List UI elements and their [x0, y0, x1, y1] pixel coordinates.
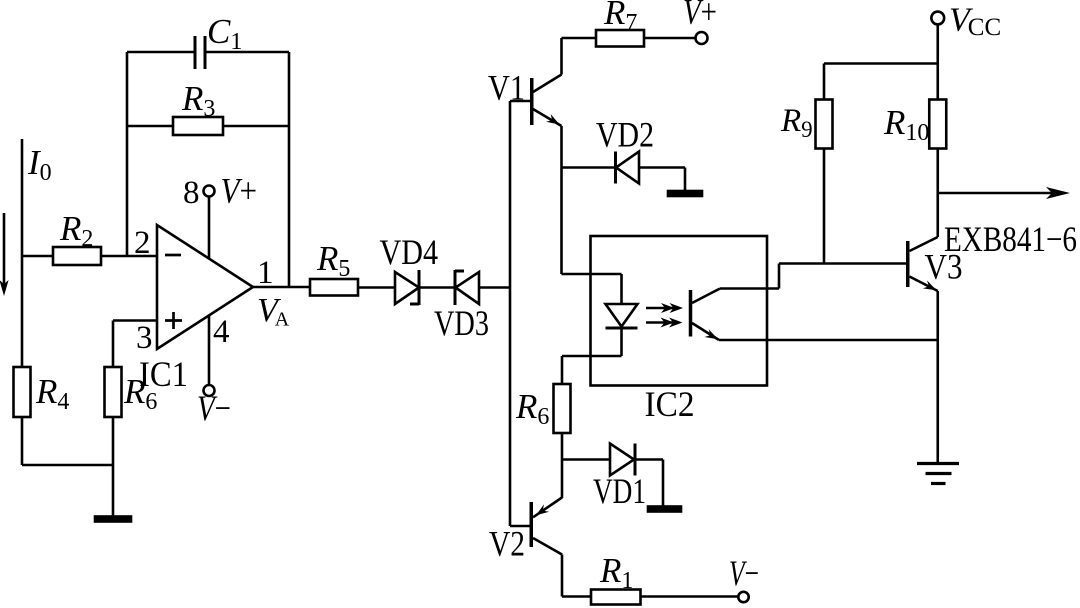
svg-text:V−: V−	[729, 553, 759, 593]
wire R2 to op-amp pin 2	[101, 255, 157, 258]
pin 8 wire	[208, 197, 211, 260]
wire VCC branch to R9	[824, 64, 938, 100]
svg-text:R7: R7	[603, 0, 637, 36]
wire op-amp output	[253, 286, 310, 289]
svg-text:VCC: VCC	[949, 2, 1001, 42]
resistor R9	[816, 100, 833, 149]
wire VD2 to ground	[639, 168, 685, 192]
pin 4 wire	[208, 316, 211, 386]
op-amp minus sign	[165, 254, 181, 257]
wire C1 top right	[206, 51, 289, 54]
wire main vertical node line	[509, 101, 512, 526]
diode VD2	[616, 152, 640, 184]
svg-text:VA: VA	[257, 292, 290, 331]
wire V1 emitter to LED anode	[562, 274, 622, 304]
resistor R6a	[105, 367, 122, 417]
wire C1 top left	[127, 51, 194, 54]
svg-text:R6: R6	[515, 387, 549, 430]
svg-text:V+: V+	[221, 171, 258, 211]
wire R10 bottom	[936, 149, 939, 238]
capacitor C1	[195, 36, 205, 69]
wire R6b bottom	[561, 433, 564, 498]
wire bottom horizontal	[22, 464, 113, 467]
svg-text:C1: C1	[207, 12, 242, 55]
svg-text:V1: V1	[488, 68, 525, 108]
light arrow 2	[646, 318, 683, 328]
terminal VCC	[931, 12, 944, 25]
svg-text:8: 8	[183, 175, 200, 211]
ground VD1	[648, 507, 681, 512]
svg-text:R3: R3	[181, 79, 215, 122]
wire to ground	[112, 465, 115, 518]
wire R4 bottom	[21, 417, 24, 465]
zener diode VD3	[455, 270, 479, 305]
svg-text:R4: R4	[35, 372, 69, 415]
wire op-amp pin 3	[113, 321, 157, 368]
svg-text:IC2: IC2	[645, 384, 695, 424]
terminal V+	[696, 32, 708, 44]
wire to VD2	[562, 166, 616, 169]
wire R5 to VD4	[358, 286, 395, 289]
resistor R4	[14, 367, 31, 417]
resistor R5	[310, 279, 358, 296]
wire input line	[21, 139, 24, 367]
wire VD3 to node	[479, 286, 510, 289]
svg-text:I0: I0	[27, 143, 52, 186]
earth ground V3	[917, 464, 959, 484]
ground left	[95, 517, 131, 522]
resistor R10	[929, 100, 946, 149]
wire V2 collector	[562, 555, 591, 597]
terminal V-	[738, 592, 748, 602]
svg-text:IC1: IC1	[139, 354, 188, 394]
wire LED cathode down	[620, 329, 623, 356]
wire V1 emitter vertical	[560, 126, 563, 274]
diode VD1	[610, 444, 635, 476]
wire VD1 to ground	[635, 460, 663, 508]
svg-text:V+: V+	[683, 0, 717, 32]
svg-text:R9: R9	[780, 103, 813, 142]
wire R7 to V+	[644, 37, 696, 40]
wire R9 bottom	[823, 149, 826, 264]
resistor R1	[591, 590, 641, 605]
svg-text:3: 3	[136, 320, 153, 356]
svg-text:VD4: VD4	[380, 232, 439, 272]
wire V3 emitter down	[936, 291, 939, 463]
wire R2 left	[22, 255, 53, 258]
svg-text:R2: R2	[59, 209, 93, 252]
light arrow 1	[646, 303, 683, 313]
wire V1 collector	[560, 38, 563, 75]
wire feedback right vertical	[288, 52, 291, 287]
op-amp plus sign	[165, 312, 182, 329]
svg-text:R1: R1	[599, 551, 633, 594]
svg-text:VD1: VD1	[593, 471, 646, 511]
resistor R7	[596, 30, 644, 47]
resistor R3	[173, 117, 223, 135]
svg-text:EXB841−6: EXB841−6	[944, 219, 1077, 259]
wire VCC down	[936, 24, 939, 99]
svg-text:V2: V2	[489, 524, 525, 564]
resistor R2	[53, 247, 101, 265]
wire R3 right	[223, 125, 289, 128]
op-amp IC1	[157, 225, 253, 349]
wire R6a bottom	[112, 417, 115, 465]
wire feedback left vertical	[126, 52, 129, 256]
svg-text:VD2: VD2	[596, 115, 654, 155]
svg-text:VD3: VD3	[434, 303, 489, 343]
ground VD2	[668, 191, 702, 196]
wire down to R6b	[561, 356, 564, 384]
svg-text:V−: V−	[197, 388, 231, 428]
wire LED cathode left	[562, 355, 622, 358]
transistor V2 PNP	[510, 498, 562, 555]
wire R3 left	[127, 125, 173, 128]
phototransistor in IC2	[689, 289, 720, 341]
output arrow wire	[938, 187, 1070, 199]
pin 4 terminal circle	[204, 385, 215, 396]
LED in IC2	[606, 304, 638, 328]
wire collector to R7	[562, 37, 597, 40]
wire VD4 to VD3	[419, 286, 455, 289]
transistor V3	[906, 237, 938, 291]
transistor V1	[510, 75, 562, 127]
wire R1 to V-	[641, 595, 739, 598]
wire to VD1	[562, 458, 610, 461]
optocoupler IC2 box	[591, 236, 768, 386]
svg-text:4: 4	[213, 314, 230, 350]
current arrow I0	[0, 213, 9, 296]
svg-text:2: 2	[134, 225, 151, 261]
wire phototransistor collector	[720, 264, 906, 289]
wire phototransistor emitter	[719, 339, 938, 342]
resistor R6b	[554, 384, 571, 433]
pin 8 terminal circle	[204, 186, 215, 197]
svg-text:1: 1	[257, 255, 274, 291]
svg-text:R5: R5	[316, 239, 350, 282]
zener diode VD4	[395, 270, 419, 305]
svg-text:R10: R10	[883, 103, 929, 146]
